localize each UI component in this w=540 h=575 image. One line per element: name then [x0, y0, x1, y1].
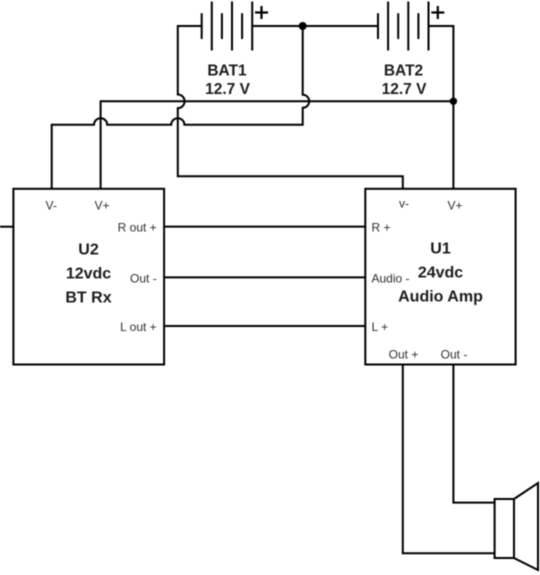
wire U1 Out + down and right to speaker lower terminal — [403, 365, 495, 554]
box U2 BT Rx — [13, 189, 164, 365]
svg-text:Out -: Out - — [441, 348, 468, 362]
wire battery midpoint down to U2 V- (hops over wire A, then left with hops, down) — [52, 26, 309, 189]
box U1 Audio Amp — [365, 189, 515, 365]
wire U2 Out - to U1 Audio - — [164, 276, 365, 278]
svg-text:V-: V- — [46, 199, 57, 213]
svg-text:Audio Amp: Audio Amp — [398, 289, 483, 306]
svg-text:V+: V+ — [448, 199, 463, 213]
node junction dot between batteries — [299, 22, 307, 30]
svg-text:V+: V+ — [95, 199, 110, 213]
svg-text:R +: R + — [372, 221, 391, 235]
battery BAT2 — [378, 2, 429, 51]
wire BAT1- to U1 v- (left, down with hop over wire A, right, down) — [178, 26, 403, 189]
svg-text:BT Rx: BT Rx — [65, 290, 111, 307]
wire U1 Out - down and right to speaker upper terminal — [453, 365, 494, 503]
svg-text:BAT2: BAT2 — [384, 63, 423, 80]
node junction dot wire A on BAT2+ rail — [450, 98, 457, 105]
svg-text:U1: U1 — [430, 241, 451, 258]
svg-text:BAT1: BAT1 — [207, 63, 247, 80]
svg-text:L out +: L out + — [120, 320, 157, 334]
svg-text:Out -: Out - — [130, 272, 157, 286]
wire BAT2+ right and down to U1 V+ — [429, 26, 454, 189]
wire U2 L out + to U1 L + — [164, 325, 365, 327]
speaker LS1 body — [495, 499, 514, 558]
svg-text:v-: v- — [399, 197, 409, 211]
svg-text:12vdc: 12vdc — [66, 266, 111, 283]
BAT2 plus sign — [431, 6, 444, 19]
svg-text:R out +: R out + — [118, 221, 157, 235]
wire U2 V+ up and right to BAT2+ rail (wire A, straight) — [101, 101, 454, 189]
wire U2 R out + to U1 R + — [164, 226, 365, 228]
wire antenna stub left of U2 — [0, 226, 13, 228]
speaker LS1 horn — [514, 483, 538, 570]
svg-text:Out +: Out + — [389, 348, 419, 362]
svg-text:12.7 V: 12.7 V — [382, 81, 427, 98]
battery BAT1 — [202, 2, 253, 51]
wire BAT1+ to BAT2- (series link) — [252, 25, 378, 27]
svg-text:Audio -: Audio - — [372, 272, 410, 286]
svg-text:U2: U2 — [78, 242, 99, 259]
svg-text:L +: L + — [372, 320, 389, 334]
svg-text:24vdc: 24vdc — [418, 265, 463, 282]
BAT1 plus sign — [255, 6, 268, 19]
svg-text:12.7 V: 12.7 V — [205, 81, 250, 98]
